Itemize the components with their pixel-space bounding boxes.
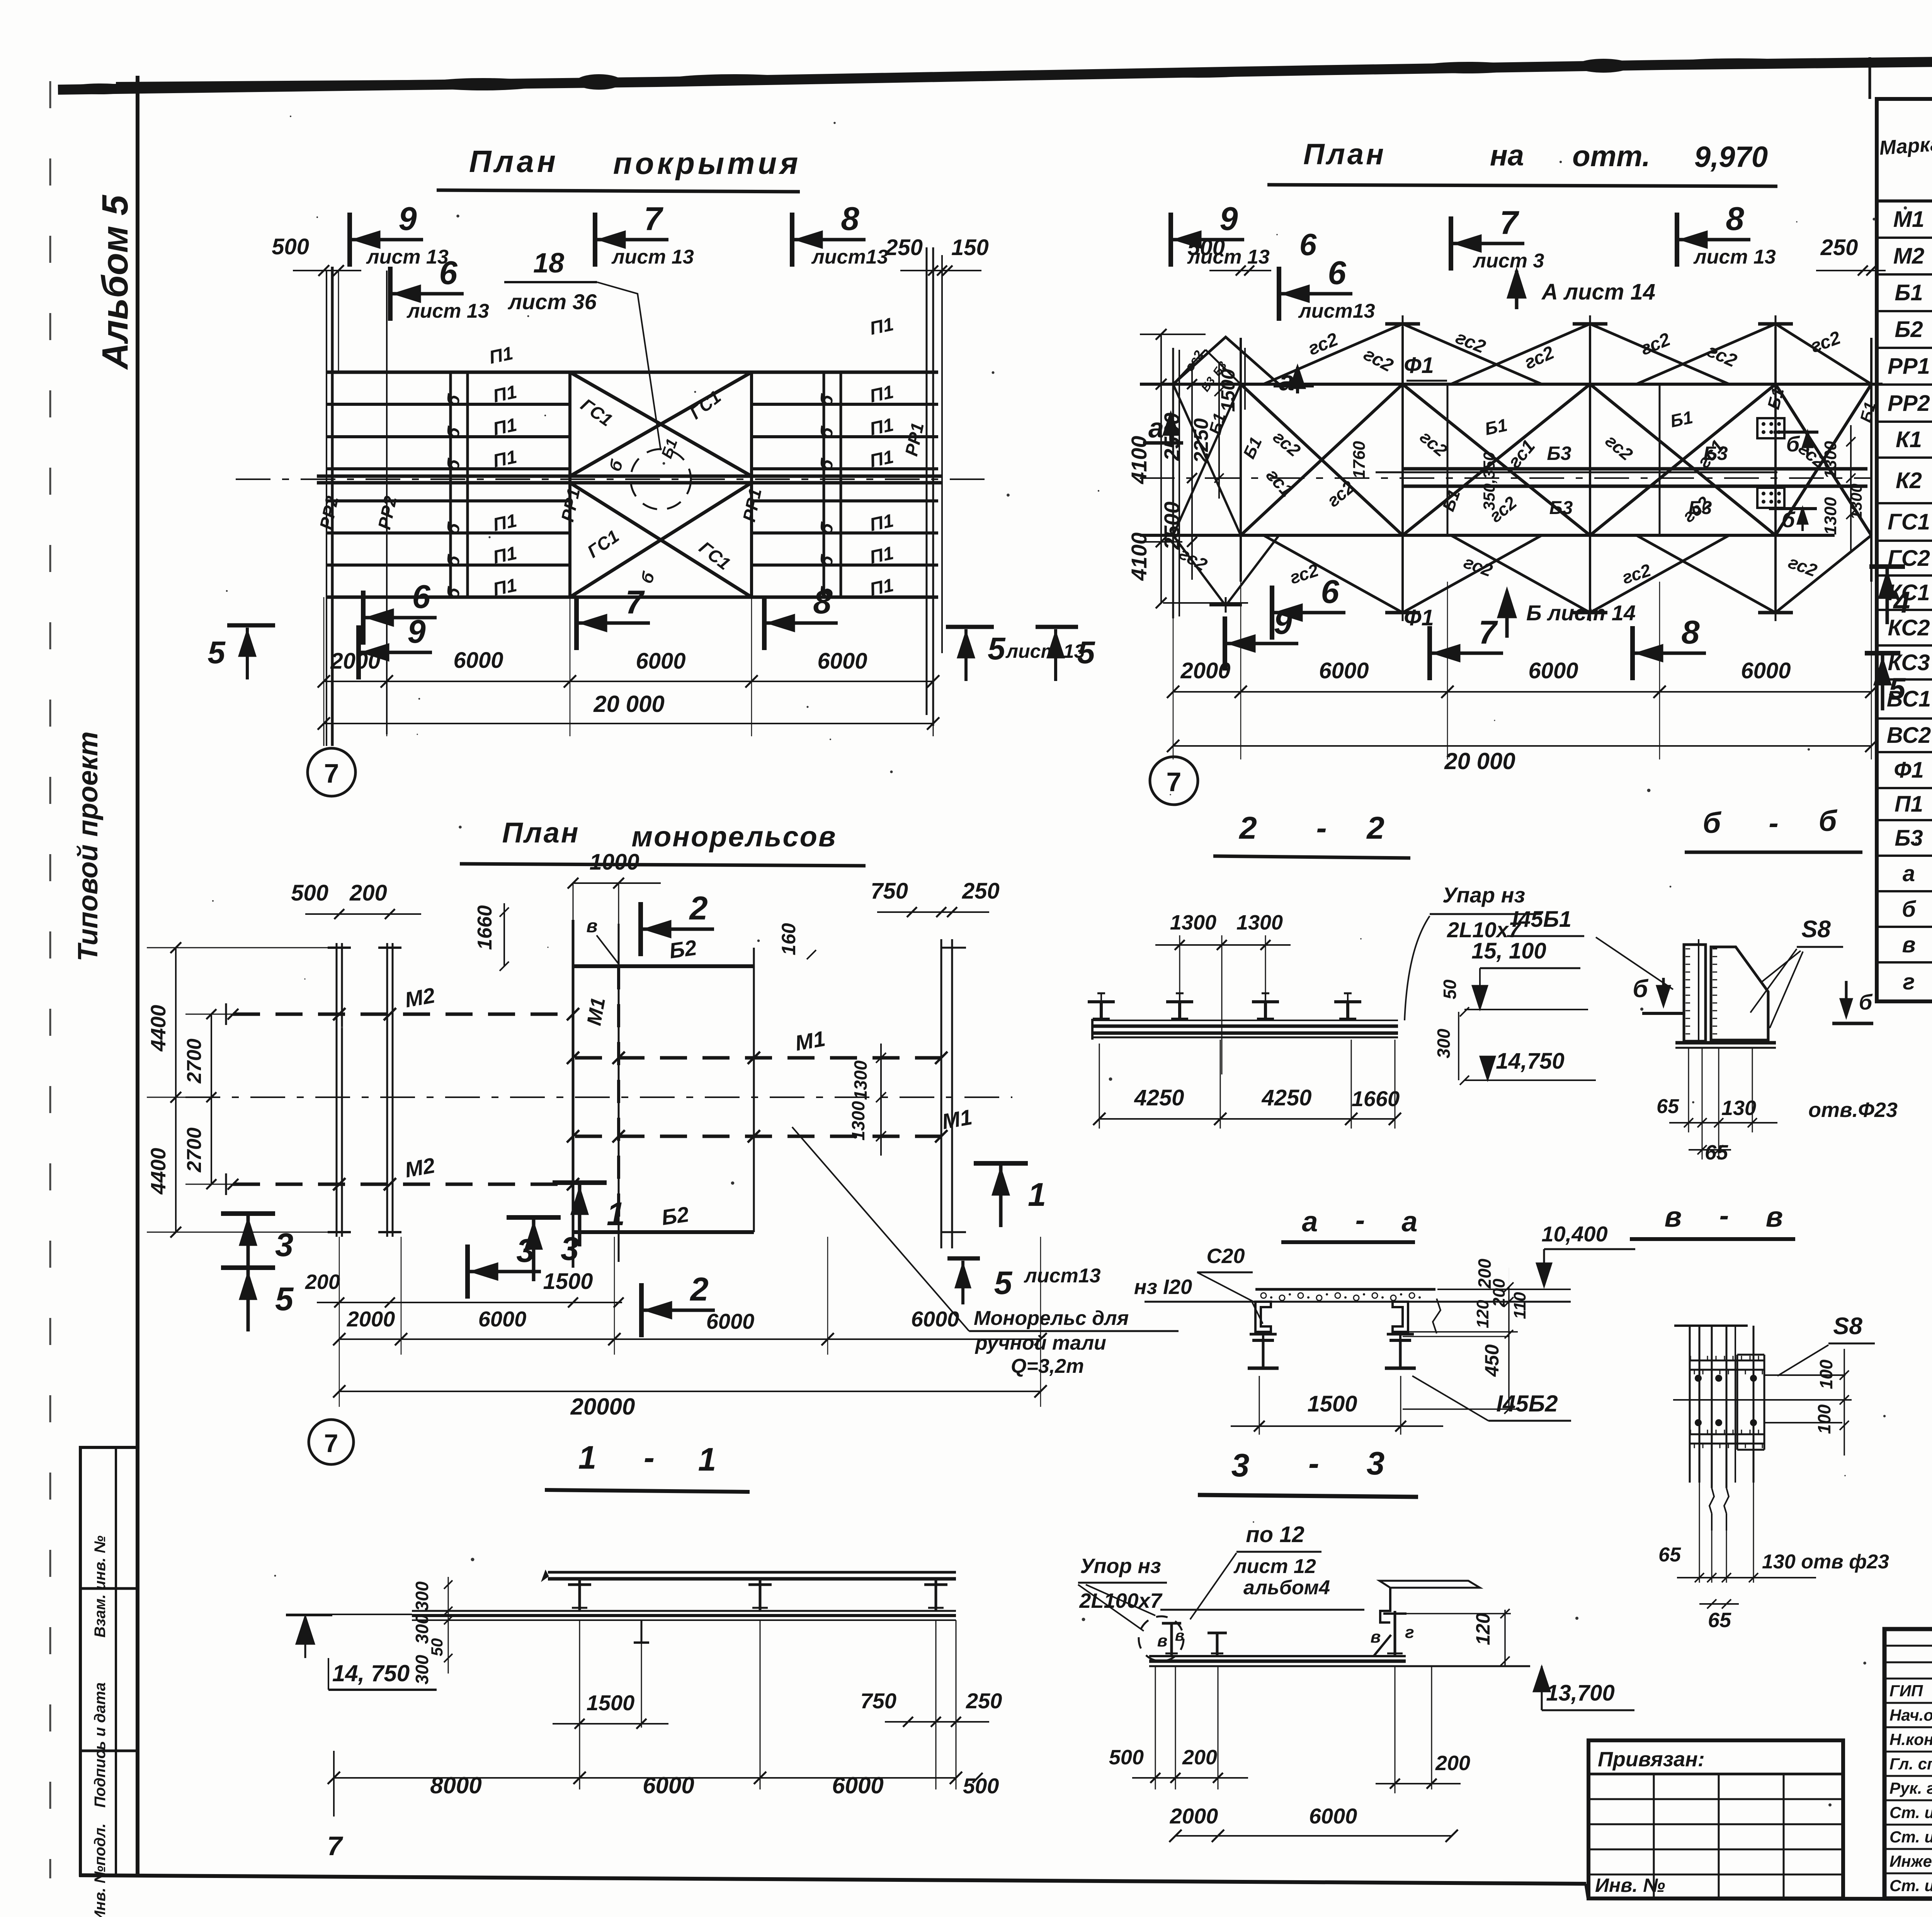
svg-text:лист 36: лист 36 xyxy=(507,289,597,314)
svg-text:8: 8 xyxy=(1681,614,1700,651)
svg-text:по 12: по 12 xyxy=(1246,1522,1304,1547)
svg-text:Нач.отд.: Нач.отд. xyxy=(1889,1706,1932,1724)
svg-text:4250: 4250 xyxy=(1134,1085,1184,1110)
svg-text:130 отв ф23: 130 отв ф23 xyxy=(1762,1551,1889,1573)
svg-text:а: а xyxy=(1401,1205,1417,1238)
svg-text:250: 250 xyxy=(1820,235,1858,260)
svg-text:50: 50 xyxy=(428,1638,446,1657)
б-б profiles xyxy=(1675,939,1776,1048)
svg-text:в: в xyxy=(1175,1627,1184,1644)
svg-text:I45Б1: I45Б1 xyxy=(1512,907,1571,932)
svg-text:1500: 1500 xyxy=(1217,369,1239,412)
svg-text:Взам. инв. №: Взам. инв. № xyxy=(92,1536,109,1638)
svg-text:г: г xyxy=(1405,1623,1414,1642)
svg-text:-: - xyxy=(1355,1204,1365,1236)
svg-text:65: 65 xyxy=(1656,1095,1679,1118)
svg-text:лист 13: лист 13 xyxy=(1693,246,1776,268)
svg-text:6000: 6000 xyxy=(1528,658,1578,683)
svg-text:Ст. инж.: Ст. инж. xyxy=(1889,1876,1932,1895)
dim 1300 1300 right rotated xyxy=(1850,425,1852,553)
svg-text:отв.Ф23: отв.Ф23 xyxy=(1808,1098,1898,1122)
б-б dims xyxy=(1688,1048,1689,1132)
svg-text:Рук. гр.: Рук. гр. xyxy=(1889,1779,1932,1797)
а-а slab xyxy=(1242,1289,1571,1302)
svg-text:750: 750 xyxy=(861,1689,896,1713)
elev plan dimensions xyxy=(1173,691,1871,693)
svg-text:покрытия: покрытия xyxy=(613,146,801,180)
svg-text:лист 3: лист 3 xyxy=(1473,250,1544,272)
svg-text:250: 250 xyxy=(962,878,1000,904)
svg-text:-: - xyxy=(1769,807,1778,839)
svg-text:Ст. инж.: Ст. инж. xyxy=(1889,1828,1932,1846)
svg-text:300: 300 xyxy=(1434,1028,1454,1058)
2-2 dims xyxy=(1179,935,1180,1019)
svg-text:7: 7 xyxy=(1478,614,1498,651)
svg-text:50: 50 xyxy=(1440,979,1460,999)
svg-text:65: 65 xyxy=(1658,1544,1681,1566)
svg-text:А лист 14: А лист 14 xyxy=(1541,279,1655,305)
svg-text:1300: 1300 xyxy=(848,1101,868,1141)
svg-text:Гл. спец.: Гл. спец. xyxy=(1889,1755,1932,1773)
svg-text:500: 500 xyxy=(1187,235,1225,260)
svg-text:Б3: Б3 xyxy=(1703,443,1728,464)
svg-text:1300: 1300 xyxy=(850,1060,871,1100)
svg-text:8: 8 xyxy=(1726,201,1744,237)
svg-text:на: на xyxy=(1490,139,1524,172)
svg-text:450: 450 xyxy=(1481,1344,1503,1377)
axis circle 7 (monorail) xyxy=(309,1420,354,1464)
section 1-1 beams xyxy=(286,1571,956,1643)
left bottom stamp column xyxy=(80,1447,138,1917)
elev plan flags top xyxy=(1168,213,1173,267)
svg-text:План: План xyxy=(502,817,580,849)
svg-text:15, 100: 15, 100 xyxy=(1471,938,1546,964)
svg-text:3: 3 xyxy=(561,1231,579,1267)
svg-text:лист13: лист13 xyxy=(811,246,888,268)
svg-text:6000: 6000 xyxy=(817,649,867,674)
svg-text:нз I20: нз I20 xyxy=(1134,1275,1192,1299)
svg-text:Б2: Б2 xyxy=(668,935,698,963)
А лист 14 arrow xyxy=(1515,271,1519,309)
svg-text:Ф1: Ф1 xyxy=(1894,758,1924,783)
2-2 bottom dims xyxy=(1099,1044,1100,1129)
svg-text:1: 1 xyxy=(607,1196,625,1233)
svg-text:ВС1: ВС1 xyxy=(1887,686,1931,712)
svg-text:1000: 1000 xyxy=(589,850,639,875)
svg-text:2: 2 xyxy=(1366,810,1384,846)
svg-text:6000: 6000 xyxy=(478,1307,527,1331)
roof plan dimensions xyxy=(324,681,933,682)
svg-text:1500: 1500 xyxy=(543,1269,593,1294)
title block: privyazan table xyxy=(1588,1740,1843,1898)
svg-text:160: 160 xyxy=(778,923,799,955)
svg-text:7: 7 xyxy=(625,584,645,621)
svg-text:альбом4: альбом4 xyxy=(1243,1577,1330,1599)
svg-text:М1: М1 xyxy=(940,1105,974,1134)
svg-text:1: 1 xyxy=(698,1441,716,1478)
svg-text:300: 300 xyxy=(412,1581,432,1611)
svg-text:750: 750 xyxy=(871,878,908,904)
roof plan beam labels xyxy=(316,314,928,601)
svg-text:4250: 4250 xyxy=(1261,1085,1311,1110)
svg-text:8: 8 xyxy=(813,584,832,621)
svg-text:7: 7 xyxy=(327,1831,344,1861)
svg-text:Б3: Б3 xyxy=(1549,498,1573,518)
left frame border xyxy=(136,76,139,1876)
svg-text:500: 500 xyxy=(291,880,328,906)
svg-text:в: в xyxy=(1766,1201,1783,1233)
svg-text:18: 18 xyxy=(533,248,564,279)
svg-text:13,700: 13,700 xyxy=(1546,1680,1614,1706)
svg-text:2000: 2000 xyxy=(1170,1804,1218,1828)
svg-text:500: 500 xyxy=(1109,1746,1144,1769)
svg-text:130: 130 xyxy=(1721,1096,1756,1120)
svg-text:б: б xyxy=(1786,432,1800,456)
svg-text:500: 500 xyxy=(963,1774,999,1798)
svg-text:Ф1: Ф1 xyxy=(1404,353,1434,378)
section 3-3 beams xyxy=(1139,1581,1530,1666)
svg-text:К2: К2 xyxy=(1896,468,1922,493)
svg-text:9: 9 xyxy=(398,201,417,237)
roof plan grid beams xyxy=(236,247,989,746)
svg-text:350,350: 350,350 xyxy=(1480,452,1498,511)
3-3 dims xyxy=(1155,1666,1156,1789)
в-в dims xyxy=(1844,1349,1845,1456)
svg-text:в: в xyxy=(587,916,598,936)
svg-text:Монорельс для: Монорельс для xyxy=(974,1307,1129,1330)
monorail left dims xyxy=(147,942,339,1238)
svg-text:б: б xyxy=(1782,507,1796,532)
svg-text:в: в xyxy=(1371,1628,1381,1646)
svg-text:2700: 2700 xyxy=(183,1127,206,1173)
svg-text:1760: 1760 xyxy=(1350,441,1369,479)
svg-text:ГС2: ГС2 xyxy=(1888,546,1930,571)
svg-text:6000: 6000 xyxy=(1319,658,1369,683)
torn black top scan edge xyxy=(58,50,1932,94)
svg-text:монорельсов: монорельсов xyxy=(631,821,837,853)
svg-text:7: 7 xyxy=(324,1429,338,1457)
svg-text:Упор нз: Упор нз xyxy=(1080,1554,1161,1578)
svg-text:200: 200 xyxy=(1182,1746,1217,1769)
svg-text:Q=3,2т: Q=3,2т xyxy=(1011,1355,1084,1377)
svg-text:б: б xyxy=(1902,897,1917,922)
svg-text:ГС1: ГС1 xyxy=(1888,509,1930,535)
svg-text:S8: S8 xyxy=(1833,1313,1862,1340)
svg-text:7: 7 xyxy=(324,758,339,788)
svg-text:-: - xyxy=(644,1439,655,1476)
svg-text:6: 6 xyxy=(439,255,457,291)
svg-text:а: а xyxy=(1302,1205,1318,1238)
svg-text:8000: 8000 xyxy=(430,1772,481,1798)
axis circle 7 (elev plan) xyxy=(1150,757,1198,805)
svg-text:б: б xyxy=(1818,805,1837,838)
svg-text:1500: 1500 xyxy=(1307,1391,1357,1416)
svg-text:Б3: Б3 xyxy=(1689,498,1712,518)
svg-text:9: 9 xyxy=(1219,201,1238,237)
svg-text:10,400: 10,400 xyxy=(1541,1222,1607,1246)
svg-text:500: 500 xyxy=(272,234,309,259)
svg-text:6: 6 xyxy=(1321,574,1339,610)
svg-text:2700: 2700 xyxy=(183,1039,206,1084)
svg-text:2: 2 xyxy=(689,1271,708,1308)
svg-text:Инженер: Инженер xyxy=(1889,1852,1932,1870)
svg-text:отт.: отт. xyxy=(1572,140,1650,173)
svg-text:6000: 6000 xyxy=(636,649,685,674)
svg-text:в: в xyxy=(1665,1201,1682,1233)
svg-text:4100: 4100 xyxy=(1127,533,1151,581)
svg-text:К1: К1 xyxy=(1896,427,1922,452)
svg-text:лист13: лист13 xyxy=(1023,1265,1100,1287)
svg-text:300: 300 xyxy=(412,1655,432,1684)
svg-text:М1: М1 xyxy=(583,996,610,1027)
svg-text:а: а xyxy=(1903,861,1915,886)
svg-text:РР1: РР1 xyxy=(1888,354,1930,379)
bottom frame border xyxy=(79,1875,1586,1884)
svg-text:б: б xyxy=(1702,807,1721,839)
svg-text:Типовой проект: Типовой проект xyxy=(73,731,104,961)
svg-text:М2: М2 xyxy=(403,1153,437,1182)
svg-text:Б2: Б2 xyxy=(660,1202,690,1230)
svg-text:-: - xyxy=(1316,810,1327,846)
svg-text:110: 110 xyxy=(1510,1292,1529,1319)
svg-text:2250: 2250 xyxy=(1190,418,1213,463)
svg-text:П1: П1 xyxy=(1895,792,1923,817)
svg-text:120: 120 xyxy=(1472,1613,1494,1645)
svg-text:7: 7 xyxy=(644,201,663,237)
svg-text:Б1: Б1 xyxy=(1895,280,1923,305)
svg-text:4400: 4400 xyxy=(147,1148,170,1195)
svg-text:б: б xyxy=(1633,975,1649,1003)
svg-text:Альбом 5: Альбом 5 xyxy=(95,195,136,370)
monorail plan structure xyxy=(185,920,1012,1268)
а-а channels and rails xyxy=(1248,1302,1416,1368)
svg-text:5: 5 xyxy=(207,635,226,670)
svg-text:лист13: лист13 xyxy=(1298,300,1375,322)
svg-text:100: 100 xyxy=(1816,1359,1836,1389)
axis circle 7 xyxy=(308,748,355,796)
svg-text:Марка: Марка xyxy=(1879,133,1932,160)
circled detail 18 xyxy=(631,449,691,509)
gusset plates right xyxy=(1757,418,1784,438)
svg-text:250: 250 xyxy=(885,235,923,260)
monorail bottom flags/dims xyxy=(221,1211,275,1216)
svg-text:Подпись и дата: Подпись и дата xyxy=(92,1682,109,1808)
elev plan labels xyxy=(1176,327,1879,630)
svg-text:М1: М1 xyxy=(793,1026,827,1056)
svg-text:6000: 6000 xyxy=(643,1772,694,1798)
svg-text:2: 2 xyxy=(689,890,707,927)
svg-text:2500: 2500 xyxy=(1160,502,1184,550)
svg-text:а: а xyxy=(1148,413,1164,444)
svg-text:ручной тали: ручной тали xyxy=(975,1332,1106,1354)
svg-text:1300: 1300 xyxy=(1821,497,1840,535)
svg-text:2000: 2000 xyxy=(347,1307,395,1331)
svg-text:1: 1 xyxy=(578,1439,597,1476)
svg-text:План: План xyxy=(469,144,559,179)
svg-text:200: 200 xyxy=(1435,1752,1470,1775)
svg-text:1300: 1300 xyxy=(1236,911,1283,934)
svg-text:КС3: КС3 xyxy=(1888,650,1930,675)
svg-text:б: б xyxy=(1859,990,1873,1014)
svg-text:200: 200 xyxy=(305,1270,340,1294)
svg-text:лист 13: лист 13 xyxy=(611,246,694,268)
roof plan bottom flags xyxy=(227,623,275,628)
в-в column detail xyxy=(1673,1326,1852,1531)
scan speckles xyxy=(212,116,1932,1806)
svg-text:250: 250 xyxy=(966,1689,1002,1713)
elev plan chords and web xyxy=(1140,315,1883,621)
svg-text:КС1: КС1 xyxy=(1888,580,1930,605)
svg-text:2: 2 xyxy=(1238,810,1257,846)
svg-text:14,750: 14,750 xyxy=(1496,1049,1564,1074)
svg-text:в: в xyxy=(1157,1631,1168,1650)
svg-text:9: 9 xyxy=(407,613,425,650)
svg-text:М2: М2 xyxy=(1893,243,1925,269)
svg-text:Б2: Б2 xyxy=(1895,317,1923,342)
1-1 elevation & dims xyxy=(304,1616,306,1658)
svg-text:200: 200 xyxy=(349,880,387,906)
svg-text:100: 100 xyxy=(1814,1404,1834,1434)
svg-text:1300: 1300 xyxy=(1170,911,1216,934)
svg-text:Б3: Б3 xyxy=(1547,443,1571,464)
svg-text:65: 65 xyxy=(1708,1609,1731,1632)
svg-text:6000: 6000 xyxy=(1309,1804,1357,1828)
element table grid xyxy=(1877,99,1932,1001)
svg-text:3: 3 xyxy=(1367,1445,1385,1481)
svg-text:Н.контр.: Н.контр. xyxy=(1889,1730,1932,1748)
section 2-2 beam xyxy=(1088,993,1398,1040)
svg-text:г: г xyxy=(1903,969,1915,994)
svg-text:6: 6 xyxy=(1299,227,1317,262)
svg-text:лист 12: лист 12 xyxy=(1233,1555,1316,1578)
table header texts xyxy=(1879,102,1932,199)
svg-text:20000: 20000 xyxy=(570,1394,635,1420)
svg-text:20 000: 20 000 xyxy=(593,691,665,717)
svg-text:5: 5 xyxy=(1077,635,1095,670)
svg-text:лист 13: лист 13 xyxy=(366,246,449,268)
svg-text:Инв. №: Инв. № xyxy=(1595,1874,1665,1896)
а-а dims xyxy=(1259,1376,1260,1435)
svg-text:в: в xyxy=(1902,932,1915,957)
svg-text:Б лист 14: Б лист 14 xyxy=(1526,601,1636,625)
svg-text:Привязан:: Привязан: xyxy=(1598,1748,1705,1771)
svg-text:6000: 6000 xyxy=(832,1772,883,1798)
svg-text:7: 7 xyxy=(1500,204,1519,241)
left dim stack 4100/2500/2250/1500 xyxy=(1127,329,1248,608)
svg-text:КС2: КС2 xyxy=(1888,615,1930,640)
svg-text:Упар нз: Упар нз xyxy=(1442,883,1525,907)
roof plan top section flags xyxy=(347,213,352,267)
svg-text:С20: С20 xyxy=(1206,1245,1245,1268)
svg-text:лист 13: лист 13 xyxy=(406,300,489,322)
svg-text:2000: 2000 xyxy=(1180,658,1230,683)
svg-text:-: - xyxy=(1719,1199,1729,1231)
svg-text:2000: 2000 xyxy=(330,649,380,674)
svg-text:ВС2: ВС2 xyxy=(1887,723,1931,748)
svg-text:РР2: РР2 xyxy=(1888,391,1930,416)
svg-text:1: 1 xyxy=(1028,1176,1046,1213)
svg-text:S8: S8 xyxy=(1801,916,1831,943)
svg-text:План: План xyxy=(1303,138,1386,171)
svg-text:14, 750: 14, 750 xyxy=(332,1660,410,1686)
table rows content xyxy=(1887,207,1932,994)
svg-text:9,970: 9,970 xyxy=(1694,141,1768,174)
svg-text:1300: 1300 xyxy=(1847,484,1865,519)
title block: signature table xyxy=(1884,1629,1932,1898)
svg-text:3: 3 xyxy=(516,1233,534,1269)
svg-text:1500: 1500 xyxy=(587,1691,635,1715)
svg-text:4400: 4400 xyxy=(147,1005,170,1052)
svg-text:7: 7 xyxy=(1167,767,1182,797)
svg-text:-: - xyxy=(1308,1445,1319,1481)
svg-text:200: 200 xyxy=(1490,1279,1509,1308)
svg-text:6000: 6000 xyxy=(1741,658,1791,683)
svg-text:1660: 1660 xyxy=(1352,1086,1400,1111)
svg-text:1660: 1660 xyxy=(474,905,496,950)
Б лист 14 arrow bottom xyxy=(1505,591,1509,638)
svg-text:6000: 6000 xyxy=(706,1309,755,1333)
svg-text:5: 5 xyxy=(275,1281,294,1318)
svg-text:5: 5 xyxy=(994,1265,1013,1301)
svg-text:3: 3 xyxy=(275,1227,293,1263)
svg-text:5: 5 xyxy=(988,631,1006,666)
svg-text:3: 3 xyxy=(1231,1447,1250,1483)
svg-text:М1: М1 xyxy=(1893,207,1925,232)
svg-text:20 000: 20 000 xyxy=(1444,748,1515,774)
svg-text:Ст. инж.: Ст. инж. xyxy=(1889,1803,1932,1822)
svg-text:150: 150 xyxy=(951,235,989,260)
svg-text:8: 8 xyxy=(841,201,859,237)
svg-text:65: 65 xyxy=(1705,1141,1728,1164)
svg-text:Б3: Б3 xyxy=(1895,826,1923,851)
svg-text:лист 13: лист 13 xyxy=(1005,640,1085,662)
elev plan bottom flags xyxy=(1223,616,1227,671)
svg-text:ГИП: ГИП xyxy=(1889,1682,1923,1700)
svg-text:М2: М2 xyxy=(403,983,437,1012)
left scan edge dashed xyxy=(49,81,51,1878)
svg-text:6000: 6000 xyxy=(453,648,503,673)
svg-text:6: 6 xyxy=(1328,255,1346,291)
svg-text:6: 6 xyxy=(412,579,430,615)
svg-text:1300: 1300 xyxy=(1821,441,1840,479)
svg-text:Инв. №подл.: Инв. №подл. xyxy=(92,1823,109,1917)
